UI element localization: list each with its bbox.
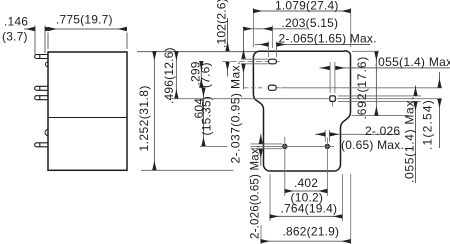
round hole1 edge exts left: [250, 143, 282, 145]
round hole crosshair verticals + exts down: [284, 137, 286, 196]
svg-text:(15.35): (15.35): [199, 96, 213, 135]
svg-text:1.079(27.4): 1.079(27.4): [275, 0, 339, 13]
round holes: horizontal centerline: [200, 145, 228, 147]
hole2 row: centerline long to right: [244, 87, 265, 89]
boss circle on body edge: [45, 129, 48, 135]
top reference line: [137, 51, 256, 53]
hole1 vertical exts up: [268, 42, 270, 58]
hole H3 slot: [330, 96, 336, 102]
bottom reference line: [141, 169, 234, 171]
svg-text:(7.6): (7.6): [198, 62, 212, 88]
step ext line: [352, 115, 410, 117]
svg-text:.146: .146: [4, 15, 28, 29]
svg-text:.775(19.7): .775(19.7): [56, 13, 113, 27]
bottom dims exts: [269, 174, 271, 221]
pin P3: [35, 96, 48, 100]
hole H1 slot: [269, 59, 277, 64]
svg-text:2-.037(0.95) Max.: 2-.037(0.95) Max.: [229, 61, 243, 163]
svg-text:.402: .402: [294, 176, 318, 190]
svg-text:.203(5.15): .203(5.15): [282, 16, 339, 30]
relay body: [48, 52, 127, 170]
body seam line: [48, 117, 127, 119]
svg-text:2-.065(1.65) Max.: 2-.065(1.65) Max.: [279, 32, 377, 46]
pin hole circle: [46, 62, 48, 67]
svg-text:2-.026(0.65) Max.: 2-.026(0.65) Max.: [250, 145, 262, 239]
round hole RH1: [283, 144, 288, 149]
svg-text:.764(19.4): .764(19.4): [281, 201, 338, 215]
svg-text:1.252(31.8): 1.252(31.8): [137, 85, 151, 151]
svg-text:.862(21.9): .862(21.9): [283, 225, 340, 239]
top edge ext to right: [352, 50, 379, 52]
svg-text:.055(1.4) Max.: .055(1.4) Max.: [375, 55, 450, 69]
svg-text:.692(17.6): .692(17.6): [355, 56, 369, 120]
pin P4: [35, 143, 48, 147]
svg-text:(0.65) Max.: (0.65) Max.: [341, 138, 404, 152]
pin P2: [35, 86, 48, 90]
1.079 / .203 vertical exts: [252, 8, 254, 47]
hole3 top/bottom ext to right: [338, 95, 421, 97]
svg-text:.102(2.6): .102(2.6): [215, 0, 229, 48]
svg-text:.496(12.6): .496(12.6): [162, 47, 176, 104]
pin P1: [35, 55, 48, 59]
hole1 row: center line + top/bottom ext to left: [222, 61, 268, 63]
hole H2 slot: [268, 85, 276, 90]
svg-text:.055(1.4) Max.: .055(1.4) Max.: [403, 96, 417, 183]
svg-text:.1(2.54): .1(2.54): [421, 99, 435, 150]
svg-text:2-.026: 2-.026: [365, 124, 400, 138]
round hole2 edge exts up: [324, 130, 326, 142]
hole3 row: centerline long both ways: [167, 98, 329, 100]
svg-text:(3.7): (3.7): [2, 30, 28, 44]
hole3 vertical exts up: [329, 62, 331, 93]
round hole RH2: [325, 144, 330, 149]
centerlines / extension lines (thin): [167, 8, 442, 244]
